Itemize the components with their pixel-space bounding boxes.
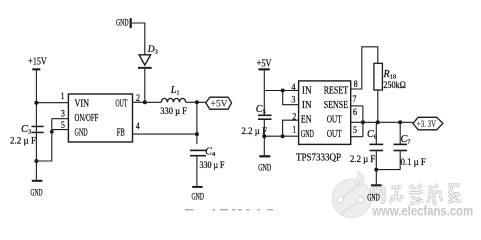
svg-text:250kΩ: 250kΩ xyxy=(383,80,406,90)
svg-text:FB: FB xyxy=(117,128,125,139)
node dot pin7/5 tie xyxy=(361,120,365,124)
svg-text:2: 2 xyxy=(136,93,140,103)
svg-text:+5V: +5V xyxy=(211,100,228,110)
svg-text:3: 3 xyxy=(292,95,296,105)
svg-text:2.2 µ F: 2.2 µ F xyxy=(242,126,268,136)
wire pin8 up and over to R18 xyxy=(351,47,378,89)
svg-text:3: 3 xyxy=(61,108,65,118)
caption fragment dashes xyxy=(185,209,273,210)
power flag +5V xyxy=(206,97,232,109)
svg-text:5: 5 xyxy=(353,125,357,135)
wire diode to OUT node xyxy=(144,69,146,103)
wire C5 down to gnd rail xyxy=(263,120,265,155)
ground GND under C4 xyxy=(192,186,202,188)
wire pin7-pin5 vertical xyxy=(362,106,364,137)
node dot C7 xyxy=(398,120,402,124)
node dot rail left xyxy=(262,134,266,138)
svg-text:1: 1 xyxy=(61,91,65,101)
wire GND rail pin1 xyxy=(264,135,298,137)
svg-text:330 µ F: 330 µ F xyxy=(160,106,187,116)
svg-text:1: 1 xyxy=(293,125,297,135)
node dot diode/OUT xyxy=(143,100,147,104)
svg-text:4: 4 xyxy=(136,121,140,131)
node dot R18/C6 xyxy=(376,120,380,124)
power flag +3.3V xyxy=(413,117,443,130)
svg-text:8: 8 xyxy=(354,79,358,89)
wire pin4 (IN) xyxy=(264,90,298,92)
resistor R18 xyxy=(374,63,383,90)
wire OUT pin2 xyxy=(133,101,162,103)
svg-text:OUT: OUT xyxy=(327,115,342,126)
node dot FB xyxy=(195,132,199,136)
capacitor C4 xyxy=(190,150,206,157)
wire down to ground right xyxy=(375,170,377,185)
ground GND right xyxy=(371,184,382,186)
node dot pin2 branch xyxy=(281,134,285,138)
wire pin3/pin5 vertical to rail xyxy=(36,119,51,161)
svg-text:6: 6 xyxy=(353,107,357,117)
wire to VIN pin1 xyxy=(36,102,68,104)
svg-text:5: 5 xyxy=(61,120,65,130)
capacitor C3 xyxy=(32,126,44,134)
svg-text:GND: GND xyxy=(75,128,88,139)
svg-text:+15V: +15V xyxy=(28,57,47,68)
wire pin3 stub xyxy=(52,118,69,120)
capacitor C7 xyxy=(394,144,408,152)
wire pin5 stub xyxy=(52,129,69,131)
node dot on pin5 vertical xyxy=(50,130,54,134)
wire OUT node down to FB xyxy=(196,102,198,144)
wire output line pin6 xyxy=(351,121,413,123)
ground GND under C5 xyxy=(259,155,270,157)
svg-text:GND: GND xyxy=(192,191,205,201)
wire GND to diode top xyxy=(132,23,145,55)
svg-text:4: 4 xyxy=(292,82,296,92)
svg-text:GND: GND xyxy=(367,192,380,202)
svg-text:2.2 µ F: 2.2 µ F xyxy=(350,154,375,164)
wire L1 to +5V node xyxy=(186,101,206,103)
svg-text:IN: IN xyxy=(302,86,312,97)
wire FB pin4 xyxy=(133,133,197,135)
svg-text:+3. 3V: +3. 3V xyxy=(417,119,437,129)
wire C7 bottom xyxy=(399,151,401,169)
svg-text:VIN: VIN xyxy=(75,99,90,110)
svg-text:OUT: OUT xyxy=(327,129,342,140)
wire +5V down xyxy=(263,70,265,114)
inductor L1 xyxy=(161,98,185,102)
svg-text:2.2 µ F: 2.2 µ F xyxy=(10,136,36,146)
svg-text:www.elecfans.com: www.elecfans.com xyxy=(371,203,473,219)
svg-text:ON/OFF: ON/OFF xyxy=(75,113,99,124)
IC U2 TPS7333 box xyxy=(299,81,351,144)
svg-text:7: 7 xyxy=(353,94,357,104)
svg-text:GND: GND xyxy=(301,129,314,140)
watermark logo xyxy=(332,171,371,218)
node junction at pin1 xyxy=(34,101,38,105)
node dot pin4 branch xyxy=(281,89,285,93)
svg-text:OUT: OUT xyxy=(115,99,127,110)
wire C6 bottom to gnd node xyxy=(375,151,377,169)
svg-text:EN: EN xyxy=(301,115,312,126)
wire C4 to ground xyxy=(196,157,198,186)
svg-text:RESET: RESET xyxy=(324,86,349,97)
svg-text:2: 2 xyxy=(292,112,296,122)
capacitor C5 xyxy=(258,115,272,121)
svg-text:TPS7333QP: TPS7333QP xyxy=(296,153,341,164)
diode D3 xyxy=(138,55,152,69)
wire +15V down xyxy=(35,70,37,161)
svg-text:IN: IN xyxy=(302,100,312,111)
svg-text:SENSE: SENSE xyxy=(324,100,348,111)
node dot gnd tie xyxy=(374,168,378,172)
node dot rail xyxy=(34,159,38,163)
svg-text:GND: GND xyxy=(31,188,43,198)
svg-text:GND: GND xyxy=(116,18,129,28)
wire rail down to ground xyxy=(35,161,37,180)
svg-text:+5V: +5V xyxy=(257,58,273,69)
wire R18 bottom to output line xyxy=(377,90,379,122)
ground GND bottom-left xyxy=(32,180,43,182)
wire C7 top xyxy=(399,122,401,144)
svg-text:330 µ F: 330 µ F xyxy=(200,160,225,170)
wire C6 top xyxy=(375,122,377,144)
node dot +5V xyxy=(195,100,199,104)
wire pin5 stub xyxy=(351,136,363,138)
wire gnd tie horizontal xyxy=(376,169,400,171)
IC U1 regulator box xyxy=(68,94,132,142)
capacitor C6 xyxy=(369,144,383,152)
wire pin7 stub xyxy=(351,105,363,107)
wire pin2 (EN) branch xyxy=(283,120,299,136)
svg-text:GND: GND xyxy=(258,162,271,172)
wire branch to pin3 (IN) xyxy=(283,91,299,105)
svg-text:0.1 µ F: 0.1 µ F xyxy=(401,157,426,167)
